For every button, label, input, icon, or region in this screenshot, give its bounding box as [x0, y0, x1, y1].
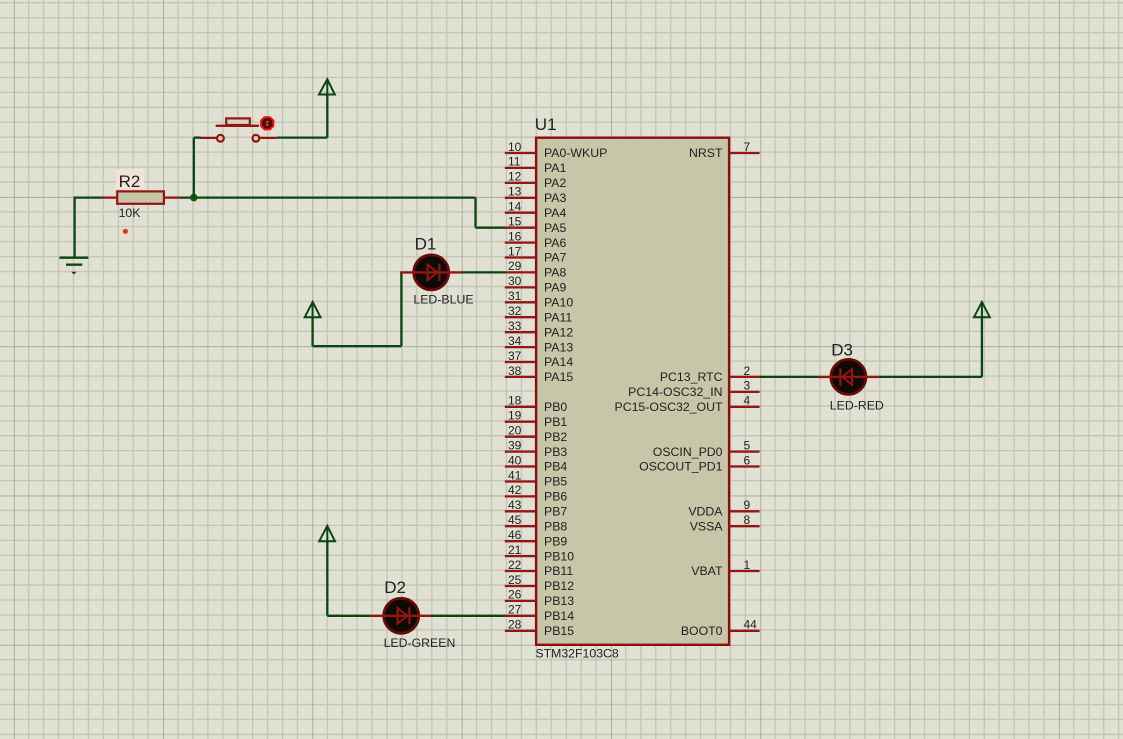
pin 3 PC14-OSC32_IN	[628, 379, 759, 399]
svg-text:3: 3	[744, 379, 751, 393]
pin 43 PB7	[505, 498, 568, 518]
pin 34 PA13	[505, 334, 574, 354]
svg-text:VSSA: VSSA	[690, 520, 724, 534]
svg-text:PA1: PA1	[544, 161, 566, 175]
pin 10 PA0-WKUP	[505, 140, 608, 160]
pin 29 PA8	[505, 259, 567, 279]
svg-text:PB1: PB1	[544, 415, 567, 429]
op-amp U1 body	[536, 138, 729, 645]
svg-text:U1: U1	[535, 115, 557, 134]
pin 39 PB3	[505, 438, 568, 458]
svg-text:43: 43	[508, 498, 522, 512]
svg-text:21: 21	[508, 543, 522, 557]
svg-text:PA15: PA15	[544, 370, 573, 384]
pin 5 OSCIN_PD0	[653, 438, 760, 458]
svg-text:4: 4	[744, 394, 751, 408]
svg-text:38: 38	[508, 364, 522, 378]
wire D3 to power	[879, 316, 982, 377]
svg-text:20: 20	[508, 424, 522, 438]
pin 11 PA1	[505, 155, 567, 175]
pin 12 PA2	[505, 170, 567, 190]
svg-text:STM32F103C8: STM32F103C8	[535, 647, 619, 661]
svg-text:10K: 10K	[119, 206, 142, 220]
pin 2 PC13_RTC	[660, 364, 760, 384]
resistor R2	[103, 191, 179, 203]
svg-text:6: 6	[744, 453, 751, 467]
pin 40 PB4	[505, 453, 568, 473]
pin 1 VBAT	[691, 558, 759, 578]
pin 9 VDDA	[688, 498, 759, 518]
pin 21 PB10	[505, 543, 574, 563]
pin 46 PB9	[505, 528, 568, 548]
LED D3	[818, 359, 879, 394]
svg-text:22: 22	[508, 558, 522, 572]
pin 22 PB11	[505, 558, 574, 578]
pin 37 PA14	[505, 349, 574, 369]
svg-text:PC14-OSC32_IN: PC14-OSC32_IN	[628, 385, 722, 399]
svg-text:PB9: PB9	[544, 534, 567, 548]
svg-text:PA9: PA9	[544, 281, 566, 295]
pin 16 PA6	[505, 229, 567, 249]
svg-text:PB6: PB6	[544, 490, 567, 504]
wire ground to R2	[74, 198, 104, 258]
power symbol (D2 net)	[319, 526, 335, 541]
svg-text:PA0-WKUP: PA0-WKUP	[544, 146, 607, 160]
svg-text:46: 46	[508, 528, 522, 542]
svg-text:OSCIN_PD0: OSCIN_PD0	[653, 445, 723, 459]
svg-text:18: 18	[508, 394, 522, 408]
svg-text:31: 31	[508, 289, 522, 303]
svg-text:12: 12	[508, 170, 522, 184]
pin 42 PB6	[505, 483, 568, 503]
pin 28 PB15	[505, 618, 574, 638]
svg-text:LED-BLUE: LED-BLUE	[413, 292, 473, 306]
svg-text:16: 16	[508, 229, 522, 243]
svg-text:PB3: PB3	[544, 445, 567, 459]
svg-text:PA14: PA14	[544, 355, 573, 369]
pin 33 PA12	[505, 319, 574, 339]
svg-text:29: 29	[508, 259, 522, 273]
pin 45 PB8	[505, 513, 568, 534]
svg-text:R2: R2	[119, 172, 141, 191]
pin 20 PB2	[505, 424, 568, 444]
svg-text:44: 44	[744, 618, 758, 632]
svg-text:15: 15	[508, 215, 522, 229]
svg-text:PC13_RTC: PC13_RTC	[660, 370, 723, 384]
svg-text:PA4: PA4	[544, 206, 566, 220]
pin 4 PC15-OSC32_OUT	[615, 394, 760, 414]
wire power to D2	[327, 541, 370, 616]
svg-text:PB13: PB13	[544, 594, 574, 608]
svg-text:41: 41	[508, 468, 522, 482]
wire power to D1	[313, 272, 402, 346]
svg-text:PB8: PB8	[544, 520, 567, 534]
svg-text:LED-GREEN: LED-GREEN	[384, 636, 456, 650]
svg-text:25: 25	[508, 573, 522, 587]
svg-text:PA11: PA11	[544, 310, 572, 324]
power symbol (button)	[319, 79, 335, 95]
pin 30 PA9	[505, 274, 567, 294]
svg-text:NRST: NRST	[689, 146, 723, 160]
svg-text:34: 34	[508, 334, 522, 348]
svg-text:26: 26	[508, 588, 522, 602]
wire R2 to PA5	[179, 198, 506, 228]
svg-text:PB12: PB12	[544, 579, 574, 593]
svg-text:PB11: PB11	[544, 564, 573, 578]
pin 6 OSCOUT_PD1	[639, 453, 759, 473]
pin 17 PA7	[505, 244, 567, 264]
pin 18 PB0	[505, 394, 568, 414]
wire D2 to PB14	[431, 615, 505, 617]
svg-text:1: 1	[744, 558, 751, 572]
svg-text:32: 32	[508, 304, 522, 318]
svg-text:VDDA: VDDA	[688, 505, 723, 519]
pin 15 PA5	[505, 215, 567, 235]
svg-text:PA13: PA13	[544, 340, 573, 354]
pin 14 PA4	[505, 200, 567, 220]
ground	[59, 258, 88, 275]
svg-text:PB15: PB15	[544, 624, 574, 638]
svg-text:PB7: PB7	[544, 505, 567, 519]
R2 reference label	[116, 169, 144, 191]
wire junction to button	[194, 138, 201, 198]
svg-text:PA6: PA6	[544, 236, 566, 250]
svg-text:11: 11	[508, 155, 521, 169]
svg-text:39: 39	[508, 438, 522, 452]
svg-text:2: 2	[744, 364, 751, 378]
svg-text:PA7: PA7	[544, 251, 566, 265]
svg-text:PB5: PB5	[544, 475, 567, 489]
push button SW	[200, 118, 277, 141]
pin 41 PB5	[505, 468, 568, 488]
svg-text:14: 14	[508, 200, 522, 214]
power symbol (D3 net)	[974, 302, 990, 317]
svg-text:PB10: PB10	[544, 549, 574, 563]
svg-text:PB14: PB14	[544, 609, 574, 623]
svg-text:D2: D2	[384, 578, 406, 597]
pin 26 PB13	[505, 588, 574, 608]
pin 31 PA10	[505, 289, 574, 309]
power symbol (D1 net)	[305, 302, 321, 317]
svg-text:7: 7	[744, 140, 751, 154]
pin 13 PA3	[505, 185, 567, 205]
pin 7 NRST	[689, 140, 760, 160]
pin 32 PA11	[505, 304, 573, 324]
svg-text:PB4: PB4	[544, 460, 567, 474]
svg-text:PA10: PA10	[544, 296, 573, 310]
svg-text:OSCOUT_PD1: OSCOUT_PD1	[639, 460, 723, 474]
pin 44 BOOT0	[681, 618, 760, 638]
pin 38 PA15	[505, 364, 574, 384]
svg-text:D3: D3	[831, 340, 853, 359]
svg-text:PA2: PA2	[544, 176, 566, 190]
svg-text:13: 13	[508, 185, 522, 199]
svg-text:PC15-OSC32_OUT: PC15-OSC32_OUT	[615, 400, 723, 414]
svg-text:40: 40	[508, 453, 522, 467]
svg-text:28: 28	[508, 618, 522, 632]
svg-text:VBAT: VBAT	[691, 564, 723, 578]
pin 8 VSSA	[690, 513, 760, 534]
svg-text:42: 42	[508, 483, 522, 497]
svg-text:33: 33	[508, 319, 522, 333]
wire PC13 to D3	[759, 376, 818, 378]
svg-text:PB0: PB0	[544, 400, 567, 414]
svg-text:8: 8	[744, 513, 751, 527]
LED D1	[400, 255, 461, 290]
svg-text:PA5: PA5	[544, 221, 566, 235]
svg-text:PA8: PA8	[544, 266, 566, 280]
pin 27 PB14	[505, 603, 574, 623]
svg-text:30: 30	[508, 274, 522, 288]
red marker dot	[123, 229, 128, 234]
svg-text:9: 9	[744, 498, 751, 512]
junction node	[190, 194, 198, 202]
svg-text:45: 45	[508, 513, 522, 527]
wire D1 to PA8	[461, 271, 505, 273]
svg-text:BOOT0: BOOT0	[681, 624, 723, 638]
svg-text:37: 37	[508, 349, 522, 363]
pin 25 PB12	[505, 573, 574, 593]
svg-text:PB2: PB2	[544, 430, 567, 444]
svg-text:LED-RED: LED-RED	[830, 399, 884, 413]
wire button to power	[277, 94, 328, 137]
svg-text:17: 17	[508, 244, 522, 258]
svg-text:10: 10	[508, 140, 522, 154]
pin 19 PB1	[505, 409, 568, 429]
LED D2	[370, 598, 431, 633]
svg-text:PA12: PA12	[544, 325, 573, 339]
svg-text:5: 5	[744, 438, 751, 452]
svg-text:PA3: PA3	[544, 191, 566, 205]
svg-text:27: 27	[508, 603, 522, 617]
svg-text:D1: D1	[415, 234, 437, 253]
svg-text:19: 19	[508, 409, 522, 423]
button actuator marker	[261, 117, 273, 129]
